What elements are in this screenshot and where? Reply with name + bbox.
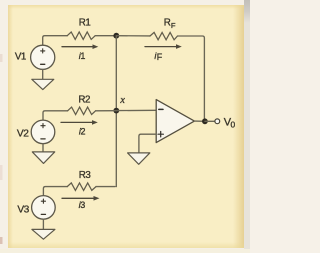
junction dot R1/RF node [113, 33, 119, 39]
wire RF to top right corner down right side [178, 36, 205, 121]
current arrow i1 [62, 44, 98, 49]
wire V2 top to R2 [43, 111, 68, 121]
current arrow i3 [62, 196, 100, 201]
ground at op-amp plus input [128, 153, 150, 164]
wire R2 to node x [96, 110, 117, 112]
svg-text:R2: R2 [78, 94, 90, 105]
wire R1 to junction [95, 35, 116, 37]
current arrow iF [145, 44, 182, 49]
voltage source V1 [31, 45, 55, 69]
svg-text:R1: R1 [79, 18, 91, 29]
wire junction to RF [116, 35, 150, 37]
svg-text:V1: V1 [15, 52, 26, 63]
op-amp U1 [156, 100, 194, 143]
output junction dot [202, 118, 208, 124]
voltage source V2 [31, 120, 55, 144]
svg-text:x: x [119, 95, 125, 106]
resistor R3 [67, 183, 96, 191]
wire to output terminal [205, 120, 215, 122]
wire V3 top to R3 [43, 187, 67, 196]
wire junction down through node x to R3 corner [115, 36, 117, 187]
op-amp plus sign [158, 132, 163, 137]
wire op-amp plus input to ground [139, 134, 156, 153]
wire V1 top to R1 [43, 36, 67, 46]
svg-text:i3: i3 [79, 200, 86, 210]
voltage source V3 [32, 196, 56, 220]
ground below V1 [32, 69, 54, 89]
resistor RF [150, 32, 178, 39]
svg-text:iF: iF [154, 51, 162, 62]
wire op-amp output [194, 120, 205, 122]
wire R3 to vertical [96, 186, 115, 188]
svg-text:i2: i2 [79, 126, 86, 136]
node x junction dot [113, 108, 119, 114]
op-amp minus sign [159, 108, 163, 110]
current arrow i2 [61, 120, 98, 125]
wire node x to op-amp minus input [116, 109, 156, 111]
svg-text:i1: i1 [79, 51, 86, 61]
svg-text:R3: R3 [79, 170, 92, 181]
resistor R2 [68, 107, 96, 114]
svg-text:V2: V2 [17, 129, 29, 140]
svg-text:V3: V3 [17, 205, 29, 216]
resistor R1 [67, 32, 95, 39]
ground below V3 [32, 219, 55, 239]
output terminal circle [215, 119, 220, 124]
ground below V2 [32, 144, 54, 164]
